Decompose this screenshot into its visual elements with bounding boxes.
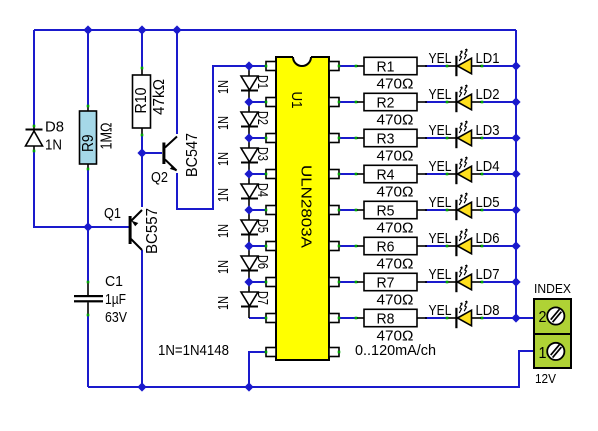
wire LD3 to +12V rail bbox=[480, 137, 516, 139]
node junction (142,387) bbox=[137, 382, 146, 391]
svg-text:2: 2 bbox=[539, 309, 547, 326]
resistor R3 bbox=[356, 137, 364, 139]
svg-text:1N: 1N bbox=[215, 152, 232, 166]
svg-text:LD6: LD6 bbox=[476, 230, 500, 247]
node junction (249,282) bbox=[244, 277, 253, 286]
svg-text:470Ω: 470Ω bbox=[377, 148, 414, 165]
U1 pin 13 (output 6) bbox=[329, 242, 339, 251]
LED LD8 bbox=[447, 317, 456, 319]
wire R6 to LD6 bbox=[425, 245, 448, 247]
IC notch bbox=[293, 56, 311, 66]
resistor R5 bbox=[356, 209, 364, 211]
wire R1 to LD1 bbox=[425, 65, 448, 67]
svg-text:D1: D1 bbox=[254, 75, 271, 89]
terminal 1 screw bbox=[547, 343, 564, 360]
wire node X down to Q1 emitter bbox=[141, 153, 143, 207]
svg-text:R8: R8 bbox=[377, 311, 395, 328]
svg-text:YEL: YEL bbox=[429, 122, 452, 139]
svg-text:1: 1 bbox=[539, 345, 547, 362]
svg-text:47kΩ: 47kΩ bbox=[151, 79, 168, 115]
svg-text:1N: 1N bbox=[215, 80, 232, 94]
U1 pin 2 (input 2) bbox=[266, 98, 276, 107]
wire left rail lower (D8 to base node wire) bbox=[34, 151, 129, 227]
node junction (177,30) bbox=[172, 25, 181, 34]
svg-text:1N: 1N bbox=[215, 116, 232, 130]
wire IC output pin to R2 bbox=[339, 101, 358, 103]
node junction (249,387) bbox=[244, 382, 253, 391]
wire R2 to LD2 bbox=[425, 101, 448, 103]
resistor R9 bbox=[87, 106, 89, 111]
U1 pin 6 (input 6) bbox=[266, 242, 276, 251]
LED LD3 bbox=[447, 137, 456, 139]
svg-text:R10: R10 bbox=[133, 87, 150, 113]
diode chain vertical lead bbox=[248, 66, 250, 318]
node junction (516,282) bbox=[511, 277, 520, 286]
wire IC output pin to R8 bbox=[339, 317, 358, 319]
node junction (516,318) bbox=[511, 313, 520, 322]
svg-text:R2: R2 bbox=[377, 95, 395, 112]
svg-text:D4: D4 bbox=[254, 183, 271, 197]
wire Q2 emitter to D1/pin1 node bbox=[177, 66, 266, 209]
svg-text:YEL: YEL bbox=[429, 230, 452, 247]
wire R8 to LD8 bbox=[425, 317, 448, 319]
svg-text:470Ω: 470Ω bbox=[377, 220, 414, 237]
node junction (516,66) bbox=[511, 61, 520, 70]
wire LD5 to +12V rail bbox=[480, 209, 516, 211]
svg-text:D5: D5 bbox=[254, 219, 271, 233]
wire right +12V rail bbox=[515, 30, 517, 318]
wire LD2 to +12V rail bbox=[480, 101, 516, 103]
node junction (249,102) bbox=[244, 97, 253, 106]
svg-text:1N=1N4148: 1N=1N4148 bbox=[158, 342, 229, 359]
U1 pin 18 (output 1) bbox=[329, 62, 339, 71]
wire C1 bottom net bbox=[87, 315, 89, 387]
svg-text:BC547: BC547 bbox=[184, 133, 201, 177]
node junction (516,174) bbox=[511, 169, 520, 178]
svg-text:R4: R4 bbox=[377, 167, 395, 184]
svg-text:YEL: YEL bbox=[429, 158, 452, 175]
svg-text:470Ω: 470Ω bbox=[377, 292, 414, 309]
diode D5 bbox=[241, 220, 258, 234]
svg-text:YEL: YEL bbox=[429, 302, 452, 319]
node junction (249,174) bbox=[244, 169, 253, 178]
wire diode chain tap to IC input pin 8 bbox=[249, 317, 266, 319]
green pin connection nubs bbox=[265, 65, 268, 68]
LED arrows LD6 bbox=[459, 231, 462, 241]
LED arrows LD5 bbox=[459, 195, 462, 205]
U1 pin 12 (output 7) bbox=[329, 278, 339, 287]
resistor R8 bbox=[356, 317, 364, 319]
diode D2 bbox=[241, 112, 258, 126]
svg-text:BC557: BC557 bbox=[144, 208, 161, 254]
svg-text:470Ω: 470Ω bbox=[377, 112, 414, 129]
diode D3 bbox=[241, 148, 258, 162]
resistor R4 bbox=[356, 173, 364, 175]
wire diode chain tap to IC input pin 7 bbox=[249, 281, 266, 283]
LED arrows LD7 bbox=[459, 267, 462, 277]
svg-text:Q1: Q1 bbox=[104, 205, 121, 222]
wire R9 top lead net bbox=[87, 30, 89, 106]
wire Q1 collector to ground rail bbox=[141, 250, 143, 387]
diode D7 bbox=[241, 292, 258, 306]
svg-text:YEL: YEL bbox=[429, 50, 452, 67]
LED arrows LD4 bbox=[459, 159, 462, 169]
node junction (249,210) bbox=[244, 205, 253, 214]
svg-text:R5: R5 bbox=[377, 203, 395, 220]
wire diode chain tap to IC input pin 4 bbox=[249, 173, 266, 175]
wire diode chain tap to IC input pin 3 bbox=[249, 137, 266, 139]
svg-text:R1: R1 bbox=[377, 59, 395, 76]
resistor R1 bbox=[356, 65, 364, 67]
LED LD6 bbox=[447, 245, 456, 247]
svg-text:1MΩ: 1MΩ bbox=[99, 122, 116, 149]
wire R4 to LD4 bbox=[425, 173, 448, 175]
U1 pin 15 (output 4) bbox=[329, 170, 339, 179]
wire C1 top net bbox=[87, 227, 89, 282]
node junction (516,246) bbox=[511, 241, 520, 250]
node junction (516,102) bbox=[511, 97, 520, 106]
diode D4 bbox=[241, 184, 258, 198]
svg-text:ULN2803A: ULN2803A bbox=[298, 165, 315, 248]
wire diode chain tap to IC input pin 5 bbox=[249, 209, 266, 211]
LED LD4 bbox=[447, 173, 456, 175]
op-amp/driver IC U1 ULN2803A body bbox=[276, 57, 329, 360]
capacitor C1 bbox=[87, 282, 89, 295]
svg-text:1N: 1N bbox=[215, 296, 232, 310]
connector INDEX body bbox=[534, 299, 571, 368]
svg-text:LD2: LD2 bbox=[476, 86, 500, 103]
node junction (249,66) bbox=[244, 61, 253, 70]
terminal 2 screw bbox=[547, 307, 564, 324]
node junction (88,30) bbox=[83, 25, 92, 34]
U1 pin 4 (input 4) bbox=[266, 170, 276, 179]
svg-text:63V: 63V bbox=[105, 309, 127, 326]
resistor R6 bbox=[356, 245, 364, 247]
wire IC output pin to R5 bbox=[339, 209, 358, 211]
diode D6 bbox=[241, 256, 258, 270]
transistor Q1 bbox=[129, 216, 132, 244]
svg-text:YEL: YEL bbox=[429, 266, 452, 283]
svg-text:LD7: LD7 bbox=[476, 266, 500, 283]
svg-text:470Ω: 470Ω bbox=[377, 76, 414, 93]
svg-text:1N: 1N bbox=[45, 137, 62, 154]
wire IC output pin to R1 bbox=[339, 65, 358, 67]
node junction (249,246) bbox=[244, 241, 253, 250]
U1 pin 16 (output 3) bbox=[329, 134, 339, 143]
U1 pin 3 (input 3) bbox=[266, 134, 276, 143]
wire LD7 to +12V rail bbox=[480, 281, 516, 283]
wire node X to Q2 base bbox=[142, 152, 162, 154]
U1 pin 7 (input 7) bbox=[266, 278, 276, 287]
resistor R2 bbox=[356, 101, 364, 103]
wire left rail upper (to D8) bbox=[33, 30, 35, 126]
wire Q2 collector to top rail bbox=[176, 30, 178, 134]
resistor R10 bbox=[141, 68, 143, 75]
wire LD4 to +12V rail bbox=[480, 173, 516, 175]
wire terminal 2 to LED rail bbox=[516, 317, 534, 319]
svg-text:D3: D3 bbox=[254, 147, 271, 161]
node junction (516,138) bbox=[511, 133, 520, 142]
LED arrows LD3 bbox=[459, 123, 462, 133]
wire diode chain tap to IC input pin 6 bbox=[249, 245, 266, 247]
wire bottom ground rail bbox=[88, 351, 534, 387]
svg-text:470Ω: 470Ω bbox=[377, 256, 414, 273]
node junction (516,210) bbox=[511, 205, 520, 214]
svg-text:1N: 1N bbox=[215, 224, 232, 238]
svg-text:R6: R6 bbox=[377, 239, 395, 256]
wire top +12V rail bbox=[34, 29, 516, 31]
U1 pin 14 (output 5) bbox=[329, 206, 339, 215]
wire IC output pin to R6 bbox=[339, 245, 358, 247]
wire R9 bottom to base node bbox=[87, 169, 89, 227]
wire R3 to LD3 bbox=[425, 137, 448, 139]
svg-text:1µF: 1µF bbox=[105, 291, 126, 308]
svg-text:D2: D2 bbox=[254, 111, 271, 125]
LED LD2 bbox=[447, 101, 456, 103]
node junction (249,138) bbox=[244, 133, 253, 142]
svg-text:D8: D8 bbox=[45, 119, 64, 136]
LED LD5 bbox=[447, 209, 456, 211]
svg-text:INDEX: INDEX bbox=[534, 282, 572, 296]
node junction (142,153) bbox=[137, 148, 146, 157]
U1 pin 17 (output 2) bbox=[329, 98, 339, 107]
svg-text:YEL: YEL bbox=[429, 86, 452, 103]
transistor Q2 bbox=[162, 143, 165, 165]
wire IC output pin to R3 bbox=[339, 137, 358, 139]
LED LD1 bbox=[447, 65, 456, 67]
svg-text:U1: U1 bbox=[288, 92, 305, 109]
wire diode chain tap to IC input pin 2 bbox=[249, 101, 266, 103]
svg-text:0..120mA/ch: 0..120mA/ch bbox=[355, 342, 436, 359]
wire LD1 to +12V rail bbox=[480, 65, 516, 67]
svg-text:1N: 1N bbox=[215, 260, 232, 274]
svg-text:R7: R7 bbox=[377, 275, 395, 292]
LED LD7 bbox=[447, 281, 456, 283]
LED arrows LD8 bbox=[459, 303, 462, 313]
svg-text:LD5: LD5 bbox=[476, 194, 500, 211]
U1 pin 11 (output 8) bbox=[329, 314, 339, 323]
svg-text:12V: 12V bbox=[535, 372, 557, 386]
svg-text:Q2: Q2 bbox=[151, 169, 168, 186]
svg-text:LD8: LD8 bbox=[476, 302, 500, 319]
svg-text:R9: R9 bbox=[80, 134, 97, 152]
svg-text:LD3: LD3 bbox=[476, 122, 500, 139]
svg-text:D7: D7 bbox=[254, 291, 271, 305]
svg-text:LD4: LD4 bbox=[476, 158, 500, 175]
U1 pin 1 (input 1) bbox=[266, 62, 276, 71]
wire LD6 to +12V rail bbox=[480, 245, 516, 247]
svg-text:D6: D6 bbox=[254, 255, 271, 269]
svg-text:1N: 1N bbox=[215, 188, 232, 202]
node junction (88,227) bbox=[83, 222, 92, 231]
U1 pin 5 (input 5) bbox=[266, 206, 276, 215]
diode D1 bbox=[241, 76, 258, 90]
wire R5 to LD5 bbox=[425, 209, 448, 211]
U1 pin 9 (GND) bbox=[266, 348, 276, 357]
wire LD8 to +12V rail bbox=[480, 317, 516, 319]
wire R10 top lead net bbox=[141, 30, 143, 68]
wire R7 to LD7 bbox=[425, 281, 448, 283]
diode D8 bbox=[33, 126, 35, 131]
svg-text:C1: C1 bbox=[105, 273, 123, 290]
node junction (142,30) bbox=[137, 25, 146, 34]
U1 pin 8 (input 8) bbox=[266, 314, 276, 323]
svg-text:YEL: YEL bbox=[429, 194, 452, 211]
LED arrows LD1 bbox=[459, 51, 462, 61]
svg-text:R3: R3 bbox=[377, 131, 395, 148]
LED arrows LD2 bbox=[459, 87, 462, 97]
U1 pin 10 (COM) bbox=[329, 348, 339, 357]
wire IC output pin to R7 bbox=[339, 281, 358, 283]
svg-text:LD1: LD1 bbox=[476, 50, 500, 67]
wire R10 bottom to node X bbox=[141, 135, 143, 153]
svg-text:470Ω: 470Ω bbox=[377, 184, 414, 201]
wire IC pin9 GND to ground rail bbox=[249, 352, 266, 387]
wire IC output pin to R4 bbox=[339, 173, 358, 175]
resistor R7 bbox=[356, 281, 364, 283]
